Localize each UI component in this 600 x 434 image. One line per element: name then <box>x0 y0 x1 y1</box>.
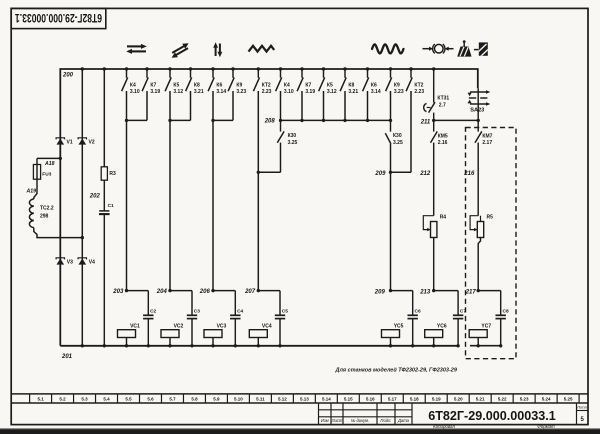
capacitor С6 branch <box>391 290 413 292</box>
svg-text:Лист: Лист <box>331 418 343 423</box>
svg-text:5.15: 5.15 <box>344 397 353 402</box>
svg-text:203: 203 <box>112 289 124 295</box>
svg-text:5.12: 5.12 <box>278 397 287 402</box>
contact К8 3.21 <box>344 69 346 78</box>
transformer winding TC2.2 298 <box>29 199 33 228</box>
svg-text:3.10: 3.10 <box>130 89 140 95</box>
svg-text:С2: С2 <box>150 309 156 315</box>
svg-text:К4: К4 <box>130 83 136 89</box>
node 209 junction <box>389 289 392 292</box>
svg-text:5.7: 5.7 <box>169 397 176 402</box>
contact К7 3.19 <box>301 69 303 78</box>
diode V1 <box>56 138 64 140</box>
wire: KT2 + K30 join to node 207 column <box>257 91 259 172</box>
capacitor С4 branch <box>213 290 235 292</box>
svg-text:К6: К6 <box>371 83 377 89</box>
svg-text:V4: V4 <box>89 259 95 265</box>
dashed option box <box>466 128 517 359</box>
svg-text:К6: К6 <box>216 83 222 89</box>
svg-text:5.6: 5.6 <box>147 397 154 402</box>
electromagnet coil YC6 <box>425 330 443 338</box>
wire: pair join K6/K9 down to node 206 <box>212 91 214 291</box>
svg-text:V3: V3 <box>67 259 73 265</box>
contact К5 3.12 <box>169 69 171 78</box>
svg-text:5.17: 5.17 <box>388 397 397 402</box>
svg-text:5.23: 5.23 <box>520 397 529 402</box>
svg-text:YC7: YC7 <box>481 324 491 330</box>
svg-text:VC3: VC3 <box>217 324 227 330</box>
contact К9 3.23 <box>390 69 392 78</box>
resistor R4 with tap <box>431 222 437 238</box>
diode V4 <box>78 258 86 260</box>
suppressor VC4 <box>249 330 267 338</box>
icon: longitudinal feed (two opposite horizontal arrows) <box>126 44 147 54</box>
wire: pair join K5/K8 down to node 204 <box>169 91 171 291</box>
wire: dashed-box bottom bus segment <box>470 345 501 347</box>
svg-text:К5: К5 <box>173 83 179 89</box>
title block table <box>319 403 413 425</box>
svg-text:С4: С4 <box>237 309 243 315</box>
svg-text:Для станков моделей ТФ2302-29,: Для станков моделей ТФ2302-29, ГФ2303-29 <box>335 367 458 374</box>
svg-text:5.22: 5.22 <box>498 397 507 402</box>
wire: column R3/C1 from bus down <box>103 69 105 167</box>
contact К4 3.10 <box>280 69 282 78</box>
svg-text:5.20: 5.20 <box>454 397 463 402</box>
icon: hatched block <box>474 42 490 56</box>
svg-text:С6: С6 <box>415 309 421 315</box>
svg-text:5.3: 5.3 <box>81 397 88 402</box>
svg-text:К8: К8 <box>194 83 200 89</box>
contact К6 3.14 <box>367 69 369 78</box>
svg-text:VC4: VC4 <box>262 324 272 330</box>
svg-text:5.8: 5.8 <box>191 397 198 402</box>
svg-text:Подп.: Подп. <box>380 418 391 423</box>
svg-text:209: 209 <box>374 290 386 296</box>
svg-text:V1: V1 <box>67 139 73 145</box>
node 203 junction <box>125 289 128 292</box>
icon: diagonal feed (two opposite diagonal arrows) <box>172 43 189 57</box>
svg-text:К30: К30 <box>393 133 402 139</box>
svg-text:3.14: 3.14 <box>216 89 226 95</box>
svg-text:К9: К9 <box>394 83 400 89</box>
svg-text:5.14: 5.14 <box>322 397 331 402</box>
wire 208 bus <box>281 119 391 121</box>
svg-text:Изм: Изм <box>321 418 329 423</box>
node 206 junction <box>211 289 214 292</box>
svg-text:298: 298 <box>40 213 49 219</box>
suppressor VC2 <box>161 330 179 338</box>
icon: clamping (arrows toward circle) <box>423 44 454 53</box>
contact KM7 2.17 <box>477 120 479 131</box>
svg-text:200: 200 <box>62 72 74 78</box>
electromagnet coil YC5 <box>382 330 400 338</box>
svg-text:К7: К7 <box>305 83 311 89</box>
svg-text:С5: С5 <box>282 309 288 315</box>
icon: rapid traverse zigzag <box>249 46 275 52</box>
svg-text:206: 206 <box>199 289 211 295</box>
svg-text:217: 217 <box>465 290 477 296</box>
wire: C1 to bottom bus <box>103 215 105 346</box>
svg-text:5.2: 5.2 <box>59 397 66 402</box>
wire: R4 to node 213 <box>433 238 435 291</box>
svg-text:211: 211 <box>420 119 431 125</box>
svg-text:YC6: YC6 <box>437 324 447 330</box>
svg-text:5.5: 5.5 <box>125 397 132 402</box>
svg-text:VC1: VC1 <box>130 324 140 330</box>
contact К9 3.23 <box>232 69 234 78</box>
svg-text:VC2: VC2 <box>174 324 184 330</box>
svg-text:3.12: 3.12 <box>327 89 337 95</box>
svg-text:КМ7: КМ7 <box>482 133 492 139</box>
contact КТ2 2.23 <box>410 69 412 78</box>
svg-text:R5: R5 <box>487 215 494 221</box>
svg-text:А18: А18 <box>44 161 55 167</box>
wire: second group contacts down to 208 <box>280 91 282 120</box>
wire: left column B from bus down <box>81 69 83 346</box>
capacitor C1 <box>99 210 109 212</box>
svg-text:R3: R3 <box>109 171 116 177</box>
svg-text:R4: R4 <box>440 215 447 221</box>
svg-text:5.9: 5.9 <box>213 397 220 402</box>
fuse FU3 <box>33 165 40 180</box>
svg-text:5.24: 5.24 <box>542 397 551 402</box>
svg-text:3.12: 3.12 <box>173 89 183 95</box>
svg-text:204: 204 <box>156 289 168 295</box>
svg-text:Лист: Лист <box>576 405 588 410</box>
sheet number box <box>576 403 588 425</box>
svg-text:3.25: 3.25 <box>288 140 298 146</box>
icon: vertical feed (up and down arrows) <box>213 42 222 57</box>
node 207 junction <box>257 289 260 292</box>
svg-text:SА23: SА23 <box>470 108 484 114</box>
wire: R5 to node 217 <box>478 238 480 291</box>
svg-text:YC5: YC5 <box>394 324 404 330</box>
resistor R5 with tap <box>477 222 483 238</box>
node 217 junction <box>477 289 480 292</box>
wire: winding bottom to column B <box>34 228 83 238</box>
contact К8 3.21 <box>190 69 192 78</box>
svg-text:5.16: 5.16 <box>366 397 375 402</box>
svg-text:5.19: 5.19 <box>432 397 441 402</box>
svg-text:201: 201 <box>61 354 73 360</box>
svg-text:5.11: 5.11 <box>256 397 265 402</box>
svg-text:3.21: 3.21 <box>348 89 358 95</box>
wire: pair join K4/K7 down to node 203 <box>126 91 128 291</box>
svg-text:5.21: 5.21 <box>476 397 485 402</box>
svg-text:К7: К7 <box>150 83 156 89</box>
svg-text:3.10: 3.10 <box>284 89 294 95</box>
svg-text:3.14: 3.14 <box>371 89 381 95</box>
svg-text:ТС2.2: ТС2.2 <box>40 206 54 212</box>
svg-text:212: 212 <box>419 171 431 177</box>
svg-text:2.23: 2.23 <box>414 89 424 95</box>
svg-text:5.4: 5.4 <box>103 397 110 402</box>
top-left stamp box with rotated drawing number 6Т82Г-29.000.00033.1 <box>11 8 106 28</box>
electromagnet coil YC7 <box>469 330 487 338</box>
svg-text:К9: К9 <box>236 83 242 89</box>
contact KM5 2.16 <box>433 120 435 131</box>
contact КТ2 2.23 <box>257 69 259 78</box>
svg-text:К5: К5 <box>327 83 333 89</box>
wire: KT2 right + K30 join, node 209 <box>410 91 412 172</box>
svg-text:2.7: 2.7 <box>439 103 446 109</box>
svg-text:5.25: 5.25 <box>564 397 573 402</box>
svg-text:FU3: FU3 <box>42 171 51 177</box>
capacitor С2 branch <box>127 290 149 292</box>
contact K30 3.25 (right) <box>390 120 392 131</box>
wire 209 down to node row <box>390 172 392 290</box>
svg-text:Дата: Дата <box>397 418 410 423</box>
diode V3 <box>56 258 64 260</box>
svg-text:2.16: 2.16 <box>438 140 448 146</box>
svg-text:2.23: 2.23 <box>262 89 272 95</box>
diode V2 <box>78 138 86 140</box>
svg-text:5.1: 5.1 <box>37 397 44 402</box>
contact К7 3.19 <box>146 69 148 78</box>
bottom bus, node 201 <box>60 345 458 347</box>
contact К5 3.12 <box>323 69 325 78</box>
wire 202 <box>103 180 105 211</box>
svg-text:С3: С3 <box>194 309 200 315</box>
contact К6 3.14 <box>212 69 214 78</box>
svg-text:207: 207 <box>244 289 256 295</box>
icon: sine wave <box>372 44 404 53</box>
svg-text:К8: К8 <box>348 83 354 89</box>
svg-text:КТ2: КТ2 <box>414 83 423 89</box>
node 204 junction <box>168 289 171 292</box>
suppressor VC3 <box>204 330 222 338</box>
capacitor С5 branch <box>258 290 280 292</box>
svg-text:5.18: 5.18 <box>410 397 419 402</box>
svg-text:208: 208 <box>264 119 276 125</box>
svg-text:5.10: 5.10 <box>234 397 243 402</box>
svg-text:3.23: 3.23 <box>236 89 246 95</box>
contact KT31 2.7 (time relay) <box>433 69 435 103</box>
svg-text:3.23: 3.23 <box>394 89 404 95</box>
suppressor VC1 <box>118 330 136 338</box>
svg-text:К30: К30 <box>288 133 297 139</box>
svg-text:А19: А19 <box>26 188 37 194</box>
svg-text:V2: V2 <box>89 139 95 145</box>
wire: fuse branch top, node A18 <box>37 157 60 159</box>
svg-text:5.13: 5.13 <box>300 397 309 402</box>
svg-text:С1: С1 <box>108 203 114 209</box>
contact K30 3.25 (left) <box>280 120 282 131</box>
svg-text:№ докум.: № докум. <box>351 418 369 423</box>
svg-text:КТ2: КТ2 <box>262 83 271 89</box>
sheet zone cell strip 5.1-5.25 <box>11 394 588 403</box>
svg-text:6Т82Г-29.000.00033.1: 6Т82Г-29.000.00033.1 <box>15 11 102 25</box>
resistor R3 <box>101 167 107 180</box>
svg-text:К4: К4 <box>284 83 290 89</box>
icon: hatched tool head with pin <box>458 40 471 57</box>
svg-text:3.19: 3.19 <box>305 89 315 95</box>
svg-text:Копировал: Копировал <box>433 424 455 429</box>
svg-text:202: 202 <box>89 194 101 200</box>
svg-text:209: 209 <box>374 171 386 177</box>
node 213 junction <box>432 289 435 292</box>
svg-text:6Т82Г-29.000.00033.1: 6Т82Г-29.000.00033.1 <box>428 409 556 423</box>
svg-text:3.19: 3.19 <box>150 89 160 95</box>
svg-text:3.25: 3.25 <box>393 140 403 146</box>
svg-text:КТ31: КТ31 <box>437 95 449 101</box>
capacitor С3 branch <box>170 290 192 292</box>
contact К4 3.10 <box>126 69 128 78</box>
switch SA23 <box>468 88 491 120</box>
capacitor С8 branch <box>478 290 501 292</box>
svg-text:213: 213 <box>419 290 431 296</box>
svg-text:КМ5: КМ5 <box>438 133 448 139</box>
svg-text:Формат: Формат <box>537 424 555 429</box>
capacitor С7 branch <box>434 290 458 292</box>
svg-text:С8: С8 <box>503 309 509 315</box>
wire 212 <box>433 143 435 216</box>
svg-text:3.21: 3.21 <box>194 89 204 95</box>
wire 216 <box>477 143 479 216</box>
svg-text:2.17: 2.17 <box>482 140 492 146</box>
wire 211 <box>434 119 479 121</box>
wire: top supply bus, node 200 <box>60 69 478 346</box>
